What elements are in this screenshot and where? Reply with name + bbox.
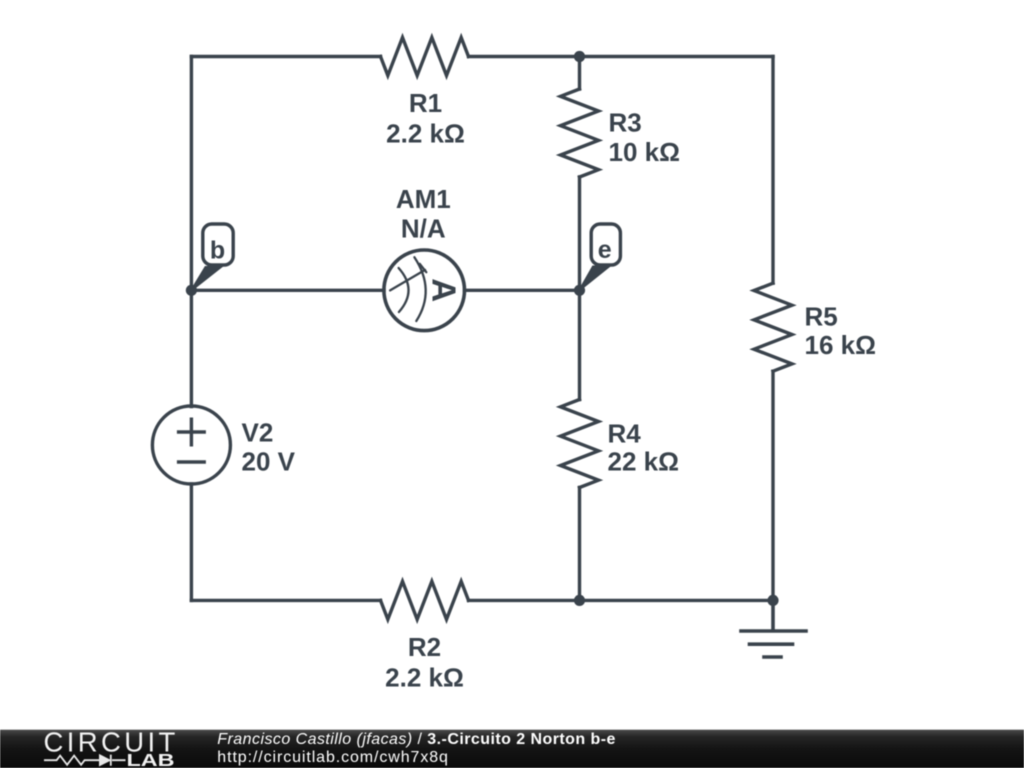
resistor R1 [381,38,469,76]
wire ammeter left [191,289,384,292]
svg-text:V2: V2 [242,417,274,447]
svg-text:22 kΩ: 22 kΩ [608,447,679,477]
svg-text:A: A [425,278,462,302]
wire right vertical lower [771,371,774,600]
svg-text:R3: R3 [609,108,642,138]
svg-text:LAB: LAB [127,750,175,768]
svg-text:b: b [210,237,225,265]
svg-text:R2: R2 [408,632,441,662]
wire ammeter right [465,289,580,292]
logo squiggle [44,755,126,766]
ammeter AM1 [384,250,465,331]
wire left vertical lower [190,484,193,600]
node b flag box [203,224,233,265]
V2 minus sign [179,460,205,463]
wire middle vertical top [578,57,581,90]
wire right vertical upper [771,57,774,284]
junction node e [574,285,585,296]
wire top left [191,55,380,58]
junction node top [574,51,585,62]
svg-text:R5: R5 [805,302,838,332]
ammeter meter glyph arcs [390,257,426,321]
svg-text:2.2 kΩ: 2.2 kΩ [386,118,465,148]
node e flag box [591,224,620,265]
wire left vertical upper [190,57,193,407]
svg-text:e: e [598,236,612,264]
ammeter needle tick [420,264,427,272]
node e flag tail [579,267,609,291]
junction node b [186,285,197,296]
resistor R2 [381,581,469,619]
svg-text:Francisco Castillo (jfacas) /: Francisco Castillo (jfacas) / 3.-Circuit… [217,731,616,748]
node b flag tail [191,267,221,290]
ground [741,600,806,657]
voltage source V2 [152,406,230,484]
svg-text:2.2 kΩ: 2.2 kΩ [385,662,464,692]
svg-text:R1: R1 [409,88,442,118]
resistor R5 [754,283,792,371]
svg-text:R4: R4 [608,418,642,448]
svg-text:10 kΩ: 10 kΩ [609,137,680,167]
wire top right [469,55,774,58]
wire bottom right [469,599,774,602]
wire middle vertical bottom [578,488,581,601]
wire middle vertical mid [578,177,581,400]
wire bottom left [191,599,380,602]
junction node bottom right [767,595,778,606]
resistor R4 [561,400,599,488]
svg-text:16 kΩ: 16 kΩ [805,330,876,360]
junction node bottom middle [574,595,585,606]
svg-text:AM1: AM1 [396,184,451,214]
svg-text:http://circuitlab.com/cwh7x8q: http://circuitlab.com/cwh7x8q [217,749,449,766]
ammeter needle [390,270,425,291]
V2 plus sign [179,419,205,445]
svg-text:N/A: N/A [401,214,446,244]
resistor R3 [561,89,599,177]
svg-text:20 V: 20 V [242,447,296,477]
